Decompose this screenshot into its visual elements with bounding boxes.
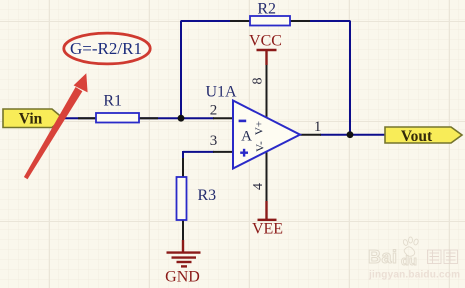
svg-text:Bai: Bai (368, 247, 398, 267)
svg-text:G=-R2/R1: G=-R2/R1 (70, 39, 142, 58)
svg-text:Vout: Vout (401, 128, 433, 145)
svg-text:V+: V+ (254, 121, 266, 135)
svg-text:2: 2 (210, 102, 218, 118)
svg-text:V-: V- (255, 141, 267, 152)
svg-text:U1A: U1A (205, 84, 237, 101)
svg-text:jingyan.baidu.com: jingyan.baidu.com (368, 270, 460, 281)
svg-text:8: 8 (251, 78, 266, 85)
svg-text:du: du (401, 253, 417, 268)
svg-text:1: 1 (314, 119, 322, 135)
svg-text:GND: GND (165, 268, 200, 285)
svg-text:3: 3 (210, 133, 218, 149)
svg-text:R2: R2 (257, 1, 276, 18)
svg-text:R1: R1 (103, 93, 122, 110)
svg-text:VEE: VEE (252, 220, 283, 237)
svg-text:Vin: Vin (19, 110, 43, 127)
svg-text:4: 4 (251, 183, 266, 190)
svg-text:A: A (241, 128, 252, 144)
svg-text:R3: R3 (198, 187, 217, 204)
svg-text:VCC: VCC (249, 32, 282, 49)
